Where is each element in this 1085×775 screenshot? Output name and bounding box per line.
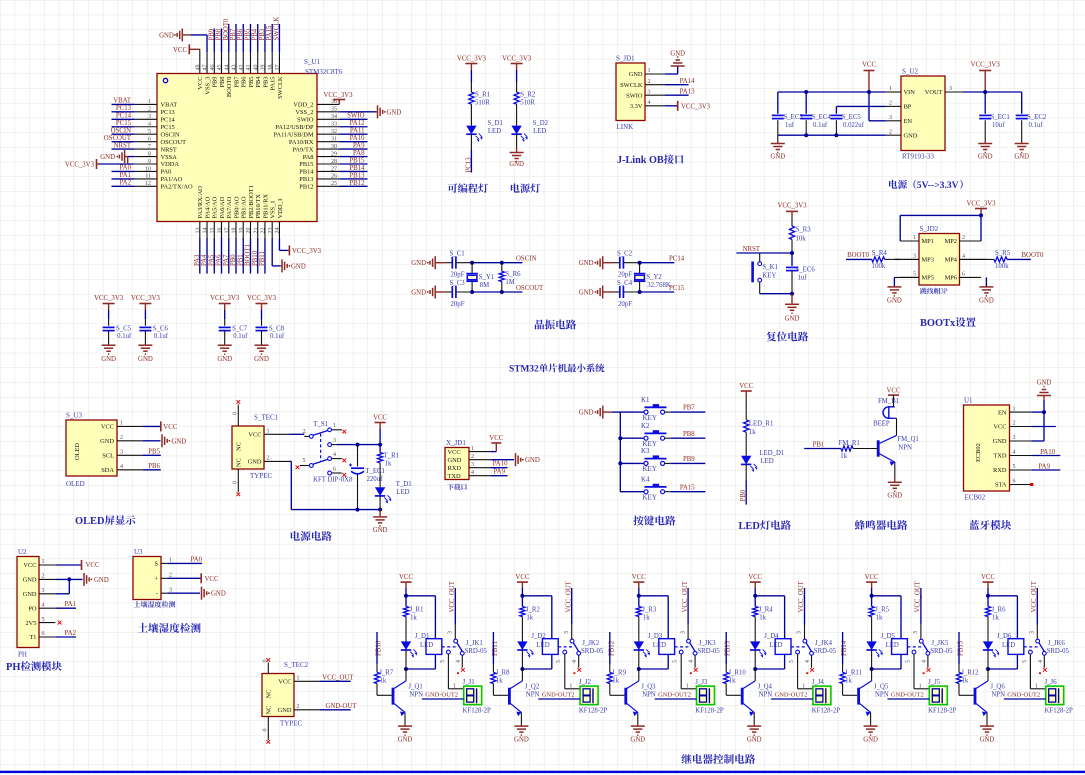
svg-text:VDD_1: VDD_1 xyxy=(277,198,284,218)
U1 left pin 11 PA1/AO xyxy=(135,178,157,180)
title 土壤湿度检测 xyxy=(138,623,148,632)
wire VOUT rail xyxy=(963,91,1022,93)
wire VCC down xyxy=(405,588,407,596)
S_TEC1 NC pin bottom xyxy=(237,469,239,492)
wire net PB8 xyxy=(671,437,706,439)
ground GND at X_JD1 pin2 xyxy=(490,459,514,461)
U1 bottom pin 22 PB11/RX xyxy=(264,222,266,239)
U1 top pin 45 PB8 xyxy=(221,52,223,73)
svg-text:PB0: PB0 xyxy=(230,254,237,266)
svg-text:LED: LED xyxy=(420,642,433,649)
svg-text:S_TEC2: S_TEC2 xyxy=(284,661,309,669)
label 土壤湿度检测 small xyxy=(134,601,141,607)
svg-text:5: 5 xyxy=(789,660,795,663)
ground GND at S_U3 pin2 xyxy=(143,440,161,442)
resistor S_R3 10k xyxy=(789,226,794,240)
svg-text:PB14: PB14 xyxy=(349,165,365,172)
junction T_EC1 bottom xyxy=(356,508,360,512)
wire net OSCOUT xyxy=(112,141,135,143)
svg-text:4: 4 xyxy=(572,660,578,663)
terminal J_J1 KF128-2P body xyxy=(464,686,482,705)
svg-text:5: 5 xyxy=(148,129,151,135)
svg-text:GND: GND xyxy=(630,737,645,744)
relay switch arm xyxy=(690,643,696,652)
transistor J_Q1 NPN xyxy=(394,681,406,689)
buzzer FM_B1 BEEP xyxy=(883,407,895,419)
relay contact pin 4 xyxy=(460,651,464,655)
capacitor S_C6 0.1uf xyxy=(139,326,151,328)
U1 bottom pin 17 PA7/AO xyxy=(228,222,230,239)
title 晶振电路 xyxy=(535,320,544,330)
wire net PB12 xyxy=(609,632,611,664)
svg-text:4: 4 xyxy=(648,100,651,106)
wire to collector xyxy=(871,669,873,681)
svg-text:NPN: NPN xyxy=(898,445,912,452)
crystal S_Y2 32.768K xyxy=(639,263,641,274)
relay contact pin 5 xyxy=(563,650,567,654)
svg-text:1: 1 xyxy=(120,421,123,427)
ground GND at U3 pin3 xyxy=(167,592,200,594)
svg-text:NRST: NRST xyxy=(743,246,761,253)
svg-text:KF128-2P: KF128-2P xyxy=(579,707,608,714)
svg-text:J_Q5: J_Q5 xyxy=(874,684,889,691)
wire to collector xyxy=(405,669,407,681)
power VCC at X_JD1 pin1 xyxy=(490,451,496,453)
svg-text:4: 4 xyxy=(689,660,695,663)
svg-text:VCC: VCC xyxy=(373,415,387,422)
wire S_R3 to NRST node xyxy=(791,240,793,254)
svg-text:T_D1: T_D1 xyxy=(396,481,412,488)
svg-text:4: 4 xyxy=(148,122,151,128)
wire net VBAT xyxy=(112,103,135,105)
wire VCC_OUT xyxy=(687,588,689,625)
svg-text:GND-OUT2: GND-OUT2 xyxy=(542,692,575,699)
svg-text:25: 25 xyxy=(331,181,337,187)
svg-text:GND: GND xyxy=(23,577,37,584)
wire net PC15 xyxy=(112,126,135,128)
wire net PA2 xyxy=(55,636,76,638)
power VCC_3V3 at S_JD1 pin4 xyxy=(665,105,678,107)
svg-text:VCC: VCC xyxy=(862,62,876,69)
relay dashed link xyxy=(675,646,690,648)
U3 pin 2 + xyxy=(161,577,167,579)
svg-text:VCC: VCC xyxy=(163,424,177,431)
svg-text:J_J6: J_J6 xyxy=(1045,679,1058,686)
wire net GND-OUT2 xyxy=(1004,698,1046,700)
title 电源（5V-3.3V） xyxy=(889,180,897,189)
svg-text:5V-->3.3V: 5V-->3.3V xyxy=(917,180,959,191)
pushbutton K2 KEY xyxy=(618,436,622,440)
svg-text:VCC: VCC xyxy=(489,435,503,442)
jumper S_JD2 body xyxy=(919,234,960,286)
svg-text:GND: GND xyxy=(525,457,540,464)
wire J_R3 to J_D3 xyxy=(638,617,640,642)
svg-text:VCC: VCC xyxy=(448,449,461,456)
svg-text:1: 1 xyxy=(148,99,151,105)
svg-text:T1: T1 xyxy=(29,634,36,641)
wire net PA1 xyxy=(55,607,76,609)
svg-text:PB4: PB4 xyxy=(255,76,262,88)
svg-text:8: 8 xyxy=(148,151,151,157)
title 蓝牙模块 xyxy=(969,520,979,530)
junction top xyxy=(753,594,757,598)
svg-text:VCC: VCC xyxy=(887,388,901,395)
title 复位电路 xyxy=(766,331,776,341)
wire GND drop below EC3 xyxy=(777,135,779,143)
svg-text:VSS_3: VSS_3 xyxy=(204,77,211,95)
wire base xyxy=(958,684,960,696)
wire net NRST xyxy=(736,252,792,254)
wire EN to GND xyxy=(1031,411,1044,413)
svg-text:GND: GND xyxy=(579,260,594,267)
svg-text:6: 6 xyxy=(148,136,151,142)
svg-text:20pF: 20pF xyxy=(451,301,465,308)
pushbutton K4 KEY xyxy=(620,491,644,493)
svg-text:VCC_3V3: VCC_3V3 xyxy=(502,56,532,63)
ground GND below S_C8 xyxy=(255,344,269,346)
svg-text:S_C8: S_C8 xyxy=(269,325,285,332)
U1 top pin 41 PB5 xyxy=(249,52,251,73)
svg-text:GND: GND xyxy=(509,161,524,168)
svg-text:VCC: VCC xyxy=(278,679,291,686)
svg-text:3: 3 xyxy=(120,450,123,456)
svg-text:3: 3 xyxy=(680,631,686,634)
wire S_C6 top xyxy=(144,310,146,319)
svg-text:T_EC1: T_EC1 xyxy=(365,468,385,475)
svg-text:S_EC6: S_EC6 xyxy=(796,266,816,273)
wire net PB13 xyxy=(339,178,367,180)
resistor S_R2 510R xyxy=(514,92,519,104)
svg-text:46: 46 xyxy=(210,65,216,71)
svg-text:PB5: PB5 xyxy=(148,448,160,455)
switch T_S1 pole 2 contact 5 xyxy=(300,465,309,467)
U1 pin 5 RXD xyxy=(1010,469,1032,471)
svg-text:LED: LED xyxy=(769,642,782,649)
svg-text:GND: GND xyxy=(411,260,426,267)
svg-text:41: 41 xyxy=(246,64,252,70)
U3 pin 3 - xyxy=(161,592,167,594)
wire bottom net xyxy=(640,291,675,293)
wire net PB0 xyxy=(235,238,237,274)
LED J_D5 xyxy=(866,641,876,650)
U1 bottom pin 19 PB1/AO xyxy=(242,222,244,239)
svg-text:RXD: RXD xyxy=(993,467,1007,474)
svg-text:2: 2 xyxy=(1013,421,1016,427)
junction EN xyxy=(1042,410,1046,414)
svg-text:2: 2 xyxy=(169,573,172,579)
svg-text:J_D2: J_D2 xyxy=(531,633,546,640)
junction R6 bottom xyxy=(500,290,504,294)
svg-text:J_J5: J_J5 xyxy=(928,679,941,686)
svg-text:U1: U1 xyxy=(964,397,973,405)
svg-text:1: 1 xyxy=(686,683,689,689)
no-connect 2V5 xyxy=(58,621,62,625)
power VCC_3V3 at U1 pin 24 xyxy=(278,238,280,250)
connector S_TEC2 body xyxy=(262,674,294,717)
svg-text:NPN: NPN xyxy=(875,692,889,699)
wire LED_R1 to LED_D1 xyxy=(745,432,747,456)
svg-text:23: 23 xyxy=(268,228,274,234)
svg-text:GND-OUT: GND-OUT xyxy=(326,703,358,710)
svg-text:0: 0 xyxy=(263,660,269,663)
pushbutton S_K1 KEY xyxy=(759,253,761,262)
svg-text:OLED: OLED xyxy=(74,443,81,460)
ground GND at U1 pins 8,9 xyxy=(128,156,135,158)
svg-text:J_R4: J_R4 xyxy=(759,607,774,614)
svg-text:510R: 510R xyxy=(520,100,535,107)
wire net PB7 xyxy=(671,411,706,413)
pushbutton K3 KEY xyxy=(618,461,622,465)
svg-text:PA0: PA0 xyxy=(161,169,172,176)
relay common contact xyxy=(454,639,458,643)
svg-text:PA3: PA3 xyxy=(194,254,201,266)
resistor S_R4 100k xyxy=(872,257,885,262)
capacitor S_C8 0.1uf xyxy=(256,326,268,328)
wire S_TEC1 VCC to switch xyxy=(289,433,304,435)
no-connect relay pin 4 xyxy=(1043,655,1045,667)
svg-text:PB6: PB6 xyxy=(241,77,248,88)
svg-text:J_Q4: J_Q4 xyxy=(758,684,773,691)
svg-text:LED: LED xyxy=(533,128,546,135)
svg-text:EN: EN xyxy=(904,118,913,125)
title 电源电路 xyxy=(291,531,300,541)
svg-text:1k: 1k xyxy=(380,678,387,685)
svg-text:PB0: PB0 xyxy=(740,489,747,501)
ground GND below T_D1 xyxy=(373,516,387,518)
U3 pin 1 S xyxy=(161,562,167,564)
svg-text:J_J2: J_J2 xyxy=(579,679,592,686)
U1 right pin 32 PA11/USB/DM xyxy=(317,133,339,135)
wire J_R4 to J_D4 xyxy=(754,617,756,642)
svg-text:GND: GND xyxy=(278,707,292,714)
crystal S_Y1 8M xyxy=(471,263,473,274)
svg-text:RT9193-33: RT9193-33 xyxy=(902,153,934,161)
svg-text:37: 37 xyxy=(275,65,281,71)
label 跳线帽3P xyxy=(920,288,927,294)
U1 right pin 30 PA9/TX xyxy=(317,148,339,150)
wire net PB13 xyxy=(725,632,727,664)
X_JD1 pin 4 TXD xyxy=(469,475,490,477)
U1 right pin 35 VSS_2 xyxy=(317,111,339,113)
wire VCC_OUT xyxy=(1036,588,1038,625)
S_U3 pin 4 SDA xyxy=(117,469,143,471)
wire top net xyxy=(640,262,675,264)
capacitor S_C4 20pF xyxy=(619,286,621,298)
svg-text:1k: 1k xyxy=(526,614,533,621)
wire net PB7 xyxy=(235,24,237,52)
svg-text:VCC: VCC xyxy=(205,576,219,583)
svg-text:PC14: PC14 xyxy=(116,113,132,120)
svg-text:15: 15 xyxy=(210,228,216,234)
svg-text:2: 2 xyxy=(120,435,123,441)
svg-text:S_C1: S_C1 xyxy=(450,250,465,257)
resistor J_R11 1k xyxy=(840,672,845,683)
junction bottom xyxy=(404,667,408,671)
wire relay coil branch xyxy=(988,595,1017,597)
wire net PA9 xyxy=(490,475,507,477)
wire net PB8 xyxy=(221,29,223,53)
svg-text:GND: GND xyxy=(100,154,115,161)
svg-text:PA2: PA2 xyxy=(120,180,132,187)
wire net PB9 xyxy=(671,462,706,464)
svg-text:S_C3: S_C3 xyxy=(450,280,466,287)
svg-text:34: 34 xyxy=(331,114,337,120)
svg-text:4: 4 xyxy=(1038,660,1044,663)
svg-text:PA3/RX/AO: PA3/RX/AO xyxy=(197,186,204,219)
wire net PA15 xyxy=(671,491,706,493)
svg-text:GND: GND xyxy=(770,154,785,161)
svg-text:NPN: NPN xyxy=(409,692,423,699)
svg-text:PA2: PA2 xyxy=(65,630,77,637)
wire to GND xyxy=(516,134,518,147)
svg-text:KF128-2P: KF128-2P xyxy=(812,707,841,714)
svg-text:GND: GND xyxy=(904,132,918,139)
junction bottom xyxy=(986,667,990,671)
svg-text:GND: GND xyxy=(514,737,529,744)
junction crystal top xyxy=(470,261,474,265)
terminal J_J4 KF128-2P body xyxy=(813,686,831,705)
svg-text:PA13: PA13 xyxy=(680,88,695,95)
relay contact pin 5 xyxy=(912,650,916,654)
svg-text:TXD: TXD xyxy=(993,453,1007,460)
svg-text:5: 5 xyxy=(905,660,911,663)
svg-text:GND-OUT2: GND-OUT2 xyxy=(658,692,691,699)
wire U2 pin2 to GND xyxy=(55,578,82,580)
svg-text:4: 4 xyxy=(921,660,927,663)
wire coil bottom xyxy=(434,654,436,669)
switch T_S1 contact 3 xyxy=(328,443,332,447)
svg-text:BOOT0: BOOT0 xyxy=(223,18,230,41)
svg-text:J_JK1: J_JK1 xyxy=(466,640,483,647)
svg-text:GND: GND xyxy=(670,51,685,58)
ground GND below FM_Q1 xyxy=(888,481,902,483)
svg-text:SCL: SCL xyxy=(102,453,114,460)
transistor J_Q4 NPN xyxy=(743,681,755,689)
svg-text:3: 3 xyxy=(648,89,651,95)
svg-text:OLED: OLED xyxy=(75,516,104,527)
svg-text:OSCOUT: OSCOUT xyxy=(104,135,132,142)
svg-text:VCC_3V3: VCC_3V3 xyxy=(323,92,353,99)
svg-text:PB6: PB6 xyxy=(237,28,244,40)
wire S_C8 bottom xyxy=(261,331,263,346)
svg-text:S_R4: S_R4 xyxy=(872,250,888,257)
U1 pin 4 TXD xyxy=(1010,455,1032,457)
svg-text:SRD-05: SRD-05 xyxy=(814,648,837,655)
svg-text:GND: GND xyxy=(411,289,426,296)
S_TEC2 pin 1 VCC xyxy=(294,680,319,682)
wire net PB11 xyxy=(492,632,494,664)
svg-text:1: 1 xyxy=(333,423,336,429)
svg-text:32.768K: 32.768K xyxy=(647,282,671,289)
wire base xyxy=(609,684,611,696)
relay switch arm xyxy=(573,643,579,652)
svg-text:J_JK6: J_JK6 xyxy=(1048,640,1066,647)
resistor J_R9 1k xyxy=(607,672,612,683)
wire net PB15 xyxy=(339,163,367,165)
power VCC at U1 pin 48 xyxy=(189,48,200,50)
ground GND above U1 xyxy=(1037,395,1051,397)
svg-text:VIN: VIN xyxy=(904,89,916,96)
svg-text:2: 2 xyxy=(962,235,965,241)
svg-text:NPN: NPN xyxy=(759,692,773,699)
svg-text:PB12: PB12 xyxy=(349,180,365,187)
svg-text:35: 35 xyxy=(331,107,337,113)
capacitor S_C2 20pF xyxy=(619,257,621,269)
resistor J_R2 1k xyxy=(521,596,523,607)
wire emitter to GND xyxy=(520,713,522,725)
svg-text:1: 1 xyxy=(453,683,456,689)
svg-text:J_JK2: J_JK2 xyxy=(582,640,600,647)
junction bottom xyxy=(870,667,874,671)
svg-text:SRD-05: SRD-05 xyxy=(465,648,488,655)
svg-text:GND: GND xyxy=(629,71,643,78)
svg-text:VCC_3V3: VCC_3V3 xyxy=(292,248,322,255)
svg-text:NPN: NPN xyxy=(642,692,656,699)
svg-text:SRD-05: SRD-05 xyxy=(581,648,604,655)
svg-text:PC13: PC13 xyxy=(116,105,132,112)
svg-text:VDDA: VDDA xyxy=(161,161,180,168)
svg-text:39: 39 xyxy=(261,65,267,71)
svg-text:43: 43 xyxy=(232,65,238,71)
svg-text:3: 3 xyxy=(889,115,892,121)
svg-text:VCC: VCC xyxy=(23,562,36,569)
svg-text:BEEP: BEEP xyxy=(873,421,890,428)
wire net PB11 xyxy=(264,238,266,274)
svg-text:1: 1 xyxy=(267,429,270,435)
wire S_C6 bottom xyxy=(144,331,146,346)
svg-text:PB11: PB11 xyxy=(259,251,266,266)
junction bottom xyxy=(790,292,794,296)
svg-text:4: 4 xyxy=(42,602,45,608)
S_TEC2 NC pin bottom xyxy=(267,717,269,740)
svg-text:5: 5 xyxy=(42,617,45,623)
svg-text:2V5: 2V5 xyxy=(25,620,36,627)
svg-text:0: 0 xyxy=(233,412,239,415)
wire VCC down xyxy=(754,588,756,596)
wire net SWCLK xyxy=(278,24,280,52)
svg-text:J_R12: J_R12 xyxy=(961,670,979,677)
wire relay pin5 to connector xyxy=(797,654,799,689)
U1 left pin 10 PA0 xyxy=(135,170,157,172)
wire net PB14 xyxy=(842,632,844,664)
svg-text:PA15: PA15 xyxy=(270,77,277,91)
svg-text:SRD-05: SRD-05 xyxy=(930,648,953,655)
wire coil bottom xyxy=(784,654,786,669)
svg-text:PC13: PC13 xyxy=(466,157,473,173)
transistor J_Q6 NPN xyxy=(976,681,988,689)
U1 bottom pin 14 PA4/AO xyxy=(206,222,208,239)
wire net PB1 xyxy=(804,448,841,450)
wire J_R5 to J_D5 xyxy=(871,617,873,642)
svg-text:LED: LED xyxy=(653,642,666,649)
junction top xyxy=(986,594,990,598)
svg-text:GND: GND xyxy=(863,737,878,744)
svg-text:2: 2 xyxy=(267,456,270,462)
svg-text:GND: GND xyxy=(993,438,1007,445)
wire net BOOT0 right xyxy=(1007,258,1031,260)
X_JD1 pin 2 GND xyxy=(469,459,490,461)
wire S_C7 bottom xyxy=(224,331,226,346)
svg-text:VCC: VCC xyxy=(248,432,261,439)
svg-text:S_EC5: S_EC5 xyxy=(842,114,862,121)
svg-text:S_C4: S_C4 xyxy=(617,280,633,287)
svg-text:J_JK5: J_JK5 xyxy=(931,640,949,647)
svg-text:3: 3 xyxy=(471,462,474,468)
S_U3 pin 2 GND xyxy=(117,440,143,442)
relay contact pin 4 xyxy=(577,651,581,655)
ground GND below EC3 xyxy=(771,143,785,145)
wire bottom net xyxy=(472,291,522,293)
